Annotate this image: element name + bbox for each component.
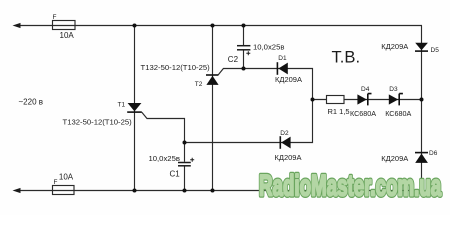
zener D4 xyxy=(357,94,371,106)
wire R1 row xyxy=(313,99,422,101)
diode D1 xyxy=(277,62,287,75)
wire T1 gate line xyxy=(142,112,185,190)
node gate1 D2 xyxy=(183,141,187,145)
wire T1 branch xyxy=(134,26,136,191)
svg-text:R1 1,5: R1 1,5 xyxy=(328,107,350,116)
svg-text:C2: C2 xyxy=(228,55,239,64)
node top C2 xyxy=(242,24,246,28)
svg-text:10,0х25в: 10,0х25в xyxy=(253,43,284,52)
svg-text:D1: D1 xyxy=(278,55,287,62)
svg-text:F: F xyxy=(53,14,57,21)
svg-text:D4: D4 xyxy=(361,86,370,93)
node C2 gate xyxy=(242,67,246,71)
svg-text:Т1: Т1 xyxy=(118,101,126,108)
svg-text:КД209А: КД209А xyxy=(381,42,408,51)
fuse F bottom xyxy=(53,186,75,195)
svg-text:D6: D6 xyxy=(429,150,438,157)
node top T1 xyxy=(133,24,137,28)
fuse F top xyxy=(53,21,76,30)
svg-text:F: F xyxy=(54,179,58,186)
diode D5 xyxy=(415,43,428,51)
svg-text:КД209А: КД209А xyxy=(381,154,408,163)
svg-text:Т2: Т2 xyxy=(195,81,203,88)
svg-text:Т.В.: Т.В. xyxy=(332,48,361,67)
diode D6 xyxy=(415,153,428,163)
svg-text:D3: D3 xyxy=(389,86,398,93)
thyristor T2 xyxy=(206,75,219,85)
wire bottom rail xyxy=(17,190,422,192)
node bottom C1 xyxy=(183,189,187,193)
node zener right xyxy=(420,98,424,102)
wire T2 branch xyxy=(212,26,214,191)
wire T2 gate line xyxy=(185,69,313,143)
svg-text:10A: 10A xyxy=(59,173,74,182)
svg-text:КД209А: КД209А xyxy=(275,153,302,162)
svg-text:D5: D5 xyxy=(431,47,440,54)
diode D2 xyxy=(280,136,290,149)
wire right vertical xyxy=(421,26,423,191)
node R1 left xyxy=(311,98,315,102)
svg-text:Т132-50-12(Т10-25): Т132-50-12(Т10-25) xyxy=(141,63,211,72)
svg-text:D2: D2 xyxy=(280,130,289,137)
svg-text:Т132-50-12(Т10-25): Т132-50-12(Т10-25) xyxy=(63,118,133,127)
watermark RadioMaster.com.ua xyxy=(259,169,442,203)
resistor R1 xyxy=(327,96,345,104)
zener D3 xyxy=(389,94,403,106)
svg-text:КС680А: КС680А xyxy=(385,109,411,118)
svg-text:10,0х25в: 10,0х25в xyxy=(149,154,180,163)
thyristor T1 xyxy=(127,103,142,112)
node top T2 xyxy=(211,24,215,28)
node bottom T2 xyxy=(211,189,215,193)
svg-text:КС680А: КС680А xyxy=(350,109,376,118)
arrow input bottom xyxy=(13,188,21,193)
svg-text:КД209А: КД209А xyxy=(275,75,302,84)
node bottom T1 xyxy=(133,189,137,193)
wire C2 branch xyxy=(243,26,245,69)
arrow input top xyxy=(13,23,21,28)
svg-text:10A: 10A xyxy=(60,31,75,40)
wire top rail xyxy=(17,25,422,27)
svg-text:RadioMaster.com.ua: RadioMaster.com.ua xyxy=(259,169,442,203)
capacitor C2 xyxy=(237,46,250,56)
svg-text:~220 в: ~220 в xyxy=(19,98,44,107)
svg-text:C1: C1 xyxy=(170,170,181,179)
capacitor C1 xyxy=(178,158,194,166)
